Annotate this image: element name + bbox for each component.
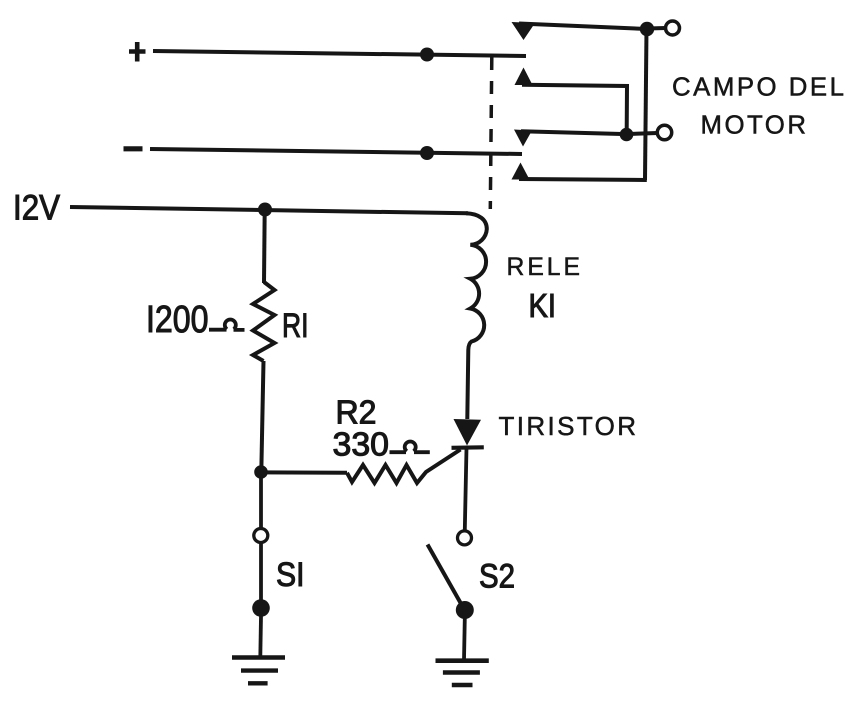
- wire R1 top lead: [262, 210, 267, 284]
- switch S1 blade: [259, 544, 263, 601]
- node contact 2/3 junction (terminal B): [620, 128, 634, 142]
- contact arrow 3: [514, 130, 532, 147]
- contact line 4: [519, 179, 647, 180]
- node terminal A: [640, 22, 654, 36]
- svg-text:I2V: I2V: [13, 188, 60, 228]
- plus terminal label: [129, 42, 146, 62]
- wire node A to ring A: [647, 26, 666, 31]
- switch S2 top terminal: [458, 531, 472, 545]
- svg-text:MOTOR: MOTOR: [701, 112, 807, 140]
- contact arrow 2: [515, 68, 533, 86]
- wire + bus: [153, 51, 526, 56]
- label ohm for R1: [209, 319, 245, 329]
- wire 12V bus: [70, 207, 468, 213]
- svg-text:S2: S2: [479, 558, 515, 596]
- switch S1 top terminal: [254, 529, 268, 543]
- contact arrow 1: [512, 22, 536, 40]
- dashed link relay to contacts: [490, 57, 492, 209]
- svg-text:KI: KI: [529, 287, 557, 324]
- ground for S1: [232, 655, 285, 660]
- wire S2 to ground: [462, 618, 467, 660]
- wire - bus: [150, 149, 522, 154]
- wire node B to ring B: [627, 133, 658, 134]
- contact line 3: [521, 131, 622, 134]
- switch S1 bottom terminal: [252, 599, 270, 617]
- label ohm for R2: [390, 441, 430, 452]
- svg-text:330: 330: [333, 427, 390, 464]
- motor terminal ring B: [657, 125, 671, 139]
- node R1 / R2 / S1 junction: [254, 465, 268, 479]
- wire R1 bottom lead: [261, 361, 263, 472]
- wire junction to S1: [259, 472, 263, 528]
- ground for S2: [436, 658, 489, 663]
- svg-text:RELE: RELE: [507, 254, 581, 281]
- wire junction to R2: [261, 470, 347, 474]
- contact arrow 4: [512, 163, 530, 180]
- minus terminal label: [124, 146, 143, 151]
- svg-text:SI: SI: [276, 556, 305, 594]
- node on + bus: [420, 48, 434, 62]
- motor terminal ring A: [666, 21, 680, 35]
- switch S2 blade: [428, 545, 465, 610]
- contact line 2 (corner down to node B): [522, 85, 627, 130]
- node on - bus: [420, 146, 434, 160]
- wire right vertical bus: [645, 29, 647, 180]
- switch S2 bottom terminal: [456, 601, 474, 619]
- wire cathode to S2: [465, 448, 467, 530]
- svg-text:CAMPO DEL: CAMPO DEL: [672, 74, 844, 102]
- relay coil K1: [466, 213, 487, 419]
- thyristor triangle: [454, 419, 482, 446]
- resistor R2 and gate wire: [347, 450, 461, 484]
- thyristor cathode bar: [452, 445, 484, 450]
- contact line 1 (to motor terminal A): [519, 24, 647, 30]
- svg-text:I200: I200: [146, 299, 209, 341]
- resistor R1: [253, 282, 275, 361]
- node 12V / R1 junction: [258, 203, 272, 217]
- wire S1 to ground: [258, 616, 263, 658]
- svg-text:RI: RI: [282, 307, 309, 345]
